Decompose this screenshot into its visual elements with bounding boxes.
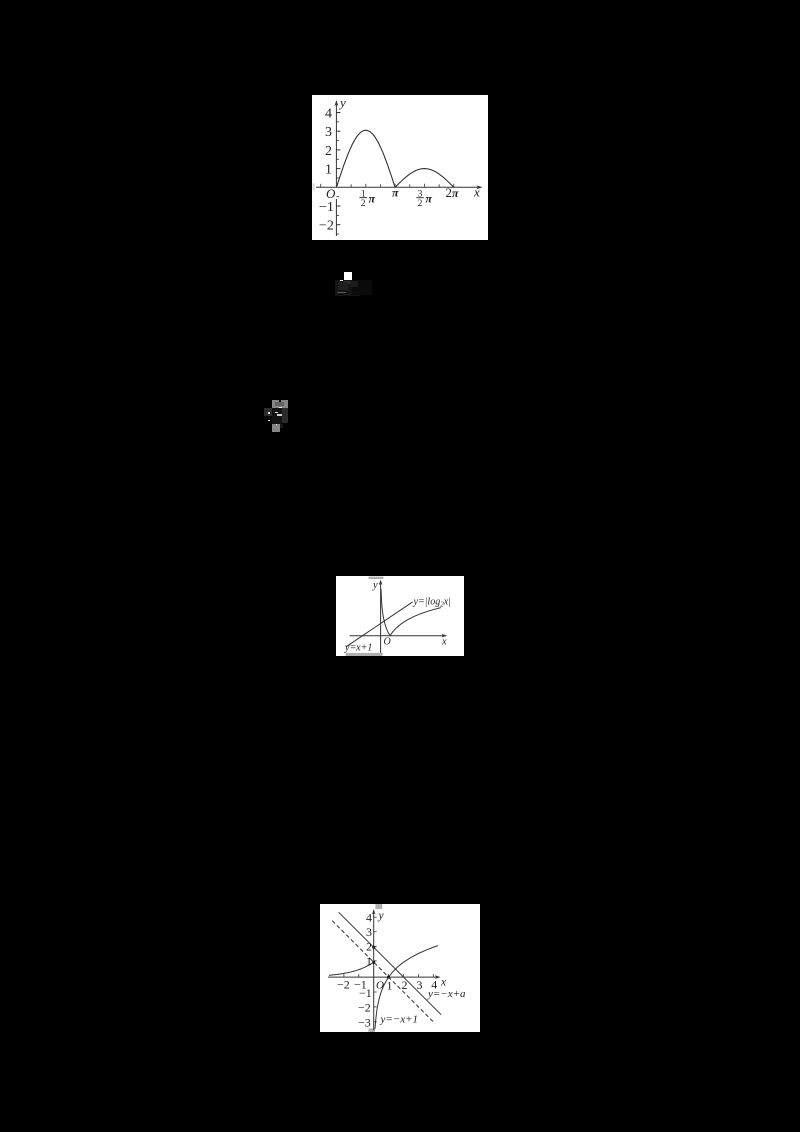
svg-text:4: 4 bbox=[366, 911, 372, 925]
gray smudge bottom bbox=[369, 1029, 376, 1033]
y-axis arrowhead bbox=[372, 909, 376, 915]
dot at (1,0) bbox=[387, 976, 390, 979]
svg-text:3: 3 bbox=[366, 925, 372, 939]
svg-text:−3: −3 bbox=[358, 1016, 371, 1030]
svg-text:3: 3 bbox=[325, 125, 332, 140]
x-axis arrowhead bbox=[442, 634, 448, 638]
svg-text:y=|log2x|: y=|log2x| bbox=[413, 597, 451, 609]
glyph A: tiny white square and faint marks bbox=[335, 280, 360, 296]
curve y=2^x (x<=0) bbox=[329, 962, 374, 975]
svg-text:4: 4 bbox=[325, 107, 332, 122]
svg-text:2: 2 bbox=[366, 940, 372, 954]
svg-text:y=−x+a: y=−x+a bbox=[427, 988, 466, 1000]
svg-text:x: x bbox=[440, 977, 447, 989]
svg-text:2: 2 bbox=[325, 144, 332, 159]
svg-text:1: 1 bbox=[366, 954, 372, 968]
svg-text:2: 2 bbox=[402, 978, 408, 992]
figure 1 white box: graph of y=|2sin x|+sin x bbox=[312, 95, 488, 240]
figure 2 white box: y=|log2 x| and y=x+1 bbox=[336, 576, 464, 656]
curve arch 1 (peak 3) bbox=[336, 130, 395, 187]
svg-text:x: x bbox=[441, 637, 447, 648]
svg-text:−2: −2 bbox=[319, 219, 334, 234]
svg-text:O: O bbox=[376, 980, 384, 992]
dot at (0,2) bbox=[372, 946, 375, 949]
svg-text:O: O bbox=[384, 637, 391, 648]
x-axis bbox=[350, 635, 445, 637]
x-axis bbox=[316, 186, 480, 188]
y-axis arrowhead bbox=[335, 100, 339, 106]
dashed line y=-x+1 bbox=[332, 921, 435, 1024]
svg-text:y: y bbox=[338, 95, 346, 110]
glyph B: small gray block cluster bbox=[264, 408, 272, 416]
x-axis ticks every pi/4 bbox=[321, 184, 454, 188]
svg-text:−1: −1 bbox=[354, 978, 367, 992]
curve arch 2 (peak 1) bbox=[395, 169, 454, 188]
curve y=log2 x (x>0) bbox=[375, 946, 438, 1029]
label 1/2 pi bbox=[359, 190, 375, 209]
y-axis minor ticks bbox=[336, 122, 339, 234]
light gray edge smudge bbox=[312, 183, 314, 190]
svg-text:2: 2 bbox=[418, 199, 423, 209]
svg-text:y: y bbox=[372, 580, 378, 591]
x-axis arrowhead bbox=[435, 975, 441, 979]
y-axis arrowhead bbox=[379, 580, 383, 586]
svg-text:2: 2 bbox=[361, 199, 366, 209]
svg-text:−2: −2 bbox=[358, 1001, 371, 1015]
y-axis bbox=[373, 911, 375, 1030]
svg-text:y: y bbox=[378, 910, 385, 922]
svg-text:3: 3 bbox=[417, 978, 423, 992]
svg-text:1: 1 bbox=[387, 979, 393, 993]
svg-text:π: π bbox=[425, 192, 432, 206]
svg-text:−2: −2 bbox=[337, 978, 350, 992]
svg-text:−1: −1 bbox=[319, 200, 334, 215]
y-axis bbox=[380, 582, 382, 654]
svg-text:2π: 2π bbox=[446, 185, 460, 200]
x-axis bbox=[328, 976, 438, 978]
figure 3 white box: y=2^x / log2 x with lines y=-x+a, y=-x+1 bbox=[320, 904, 480, 1032]
svg-text:y=x+1: y=x+1 bbox=[344, 643, 372, 654]
line y=x+1 bbox=[346, 602, 413, 647]
curve y=|log2 x| bbox=[381, 589, 441, 636]
svg-text:1: 1 bbox=[325, 163, 332, 178]
x ticks bbox=[344, 974, 433, 977]
y ticks bbox=[374, 917, 377, 1022]
svg-text:π: π bbox=[392, 186, 399, 200]
gray smudge top bbox=[375, 904, 382, 909]
y-axis bbox=[335, 199, 337, 236]
svg-text:y=−x+1: y=−x+1 bbox=[380, 1014, 419, 1026]
svg-text:π: π bbox=[369, 192, 376, 206]
gray smudge bottom-left bbox=[346, 653, 383, 656]
y-axis major ticks bbox=[336, 113, 340, 225]
svg-text:O: O bbox=[326, 186, 336, 201]
x-axis arrowhead bbox=[477, 185, 483, 189]
dot at (0,1) bbox=[372, 961, 375, 964]
solid line y=-x+a bbox=[339, 912, 441, 1014]
gray smudge top bbox=[369, 577, 384, 579]
svg-text:x: x bbox=[473, 185, 480, 200]
label 3/2 pi bbox=[416, 190, 432, 209]
